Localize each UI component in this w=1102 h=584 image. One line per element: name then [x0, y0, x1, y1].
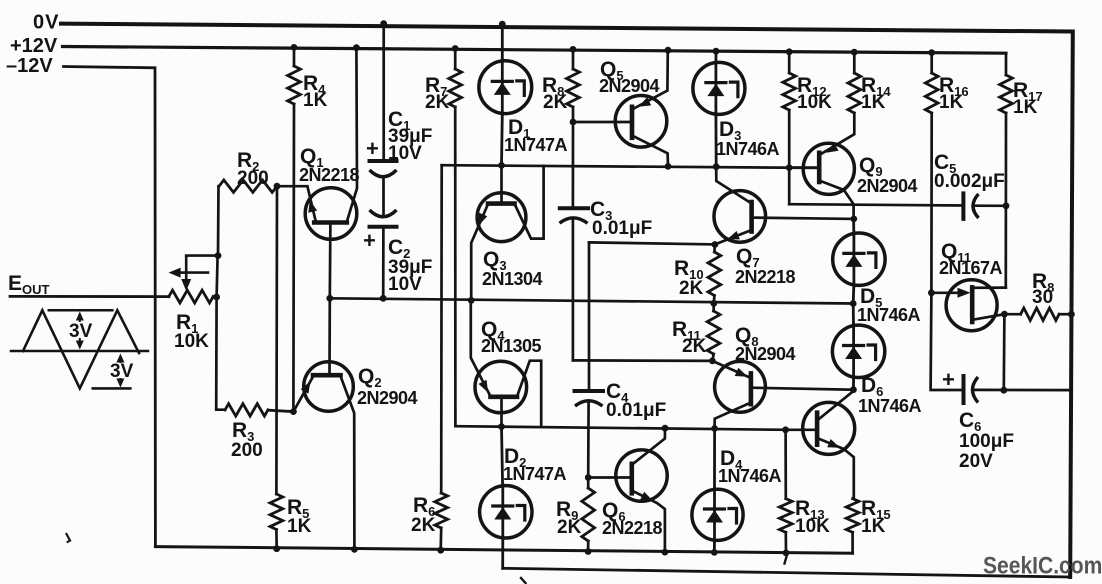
label Q2 [358, 365, 382, 390]
svg-text:1K: 1K [861, 92, 886, 113]
junction R7 top on +12V [452, 45, 459, 52]
svg-text:1N746A: 1N746A [858, 396, 922, 416]
label R3 [232, 419, 254, 444]
junction R12 on upper bus [786, 164, 793, 171]
junction R16 line / Q11 base [928, 289, 935, 296]
label R12 [797, 74, 827, 99]
label Q9 [859, 154, 883, 179]
label Q11 type [939, 258, 1003, 278]
junction R11 bottom / Q8 emitter [709, 358, 716, 365]
svg-text:2N2904: 2N2904 [599, 76, 660, 96]
label R7 value [425, 92, 450, 113]
junction C6 wire / Q11 emitter line [1000, 387, 1007, 394]
wire R2 node down to R5 [275, 186, 278, 494]
svg-text:1N747A: 1N747A [503, 464, 567, 484]
resistor R10 [708, 245, 721, 304]
label C4 value [606, 400, 666, 421]
wire D1 bottom lead [500, 114, 504, 166]
speck mark bottom center [521, 578, 526, 583]
svg-text:0.01μF: 0.01μF [606, 400, 666, 421]
transistor Q10 [786, 391, 855, 499]
label Q8 [735, 324, 759, 349]
label R14 value [861, 92, 886, 113]
junction R8/Q5 base node [570, 119, 577, 126]
label C4 [606, 380, 629, 405]
waveform peak reference line [49, 309, 113, 312]
label C5 [934, 151, 956, 176]
wire D1 top lead [501, 24, 504, 61]
svg-text:30: 30 [1032, 287, 1053, 308]
label R16 [939, 74, 969, 99]
speck tick below R13 [785, 557, 787, 564]
label Q4 type [481, 336, 542, 356]
junction R4 top on +12V [291, 44, 298, 51]
wire C4 top corner to Q7 emitter node [588, 242, 591, 391]
label C1 [388, 108, 410, 133]
label C2 plus [363, 228, 376, 253]
junction R13 bottom [783, 550, 790, 557]
junction R12 top on +12V [786, 48, 793, 55]
svg-text:2N1305: 2N1305 [481, 336, 542, 356]
svg-text:2N2218: 2N2218 [602, 518, 663, 538]
wire D4 top lead [713, 429, 716, 490]
svg-text:200: 200 [231, 440, 263, 461]
label R5 value [287, 516, 312, 537]
junction D3/Q7 collector node on bus [713, 163, 720, 170]
label C1 value [388, 126, 432, 147]
transistor Q6 [588, 428, 667, 552]
label R11 value [682, 336, 707, 357]
zener diode D6 [832, 324, 884, 378]
junction R2-Q1 node [274, 183, 281, 190]
label R16 value [939, 92, 964, 113]
label Q4 [481, 318, 505, 343]
label R17 value [1013, 97, 1038, 118]
svg-text:1N746A: 1N746A [718, 466, 782, 486]
label +12V [10, 35, 58, 57]
label Q8 type [735, 344, 796, 364]
junction D6 bottom / Q10 collector node [850, 386, 857, 393]
wire lower bus (Q4 base / D2 node rail) [455, 426, 785, 430]
label Q11 [941, 240, 971, 265]
label Q9 type [857, 176, 918, 196]
junction R3-Q2 emitter node [290, 408, 297, 415]
wire bottom -12V rail [155, 547, 852, 554]
svg-text:+12V: +12V [10, 35, 58, 57]
svg-text:10V: 10V [388, 143, 422, 164]
speck mark lower left [67, 534, 71, 542]
resistor R8 (30) [1004, 308, 1071, 320]
R1 wiper arm [181, 256, 218, 291]
label R3 value [231, 440, 263, 461]
label R8 (2K) [542, 74, 564, 99]
junction R9 top / Q6 base node [585, 474, 592, 481]
label R15 [861, 497, 891, 522]
resistor R4 [288, 47, 301, 411]
label R2 [237, 149, 259, 174]
label D2 [504, 445, 526, 470]
label 3V upper [69, 321, 93, 342]
resistor R6 [435, 165, 448, 550]
svg-text:1K: 1K [939, 92, 964, 113]
svg-text:2K: 2K [557, 517, 582, 538]
label C6 [959, 409, 981, 434]
transistor Q2 [293, 298, 354, 549]
capacitor C3 [560, 208, 589, 360]
wire D3 bottom lead [715, 114, 718, 166]
wire C3 to R11 bottom [573, 359, 713, 362]
label R7 [425, 74, 447, 99]
svg-text:1N746A: 1N746A [716, 139, 780, 159]
label D6 type [858, 396, 922, 416]
junction R16 top on +12V [928, 49, 935, 56]
svg-text:2N2904: 2N2904 [735, 344, 796, 364]
junction D5-D6 mid node [850, 300, 857, 307]
label R4 value [303, 90, 328, 111]
junction R9 bottom [585, 548, 592, 555]
label R4 [303, 72, 326, 97]
svg-text:+: + [366, 136, 379, 161]
label C6 value [959, 431, 1014, 452]
junction C2 bottom node [380, 295, 387, 302]
label R2 value [237, 168, 269, 189]
svg-text:2K: 2K [679, 278, 704, 299]
label Q6 type [602, 518, 663, 538]
svg-text:10V: 10V [388, 274, 422, 295]
label Q3 type [482, 269, 543, 289]
zener diode D1 [479, 60, 532, 115]
label Q7 type [735, 267, 796, 287]
label R15 value [861, 516, 886, 537]
dimension arrow 3V upper [76, 312, 84, 350]
wire D6 top lead [852, 304, 855, 326]
label C2 value [388, 257, 432, 278]
transistor Q1 [277, 48, 357, 299]
label R13 value [795, 516, 830, 537]
wire D2 top lead [502, 427, 503, 486]
junction C5 right on R17 line [1003, 202, 1010, 209]
junction Q2 collector bottom [351, 546, 358, 553]
label Q3 [483, 248, 507, 273]
svg-text:+: + [363, 228, 376, 253]
capacitor C2 [370, 210, 397, 298]
junction Q11 emitter / R8 left [1001, 311, 1008, 318]
label R6 [413, 494, 435, 519]
transistor Q7 [714, 167, 854, 245]
svg-text:2N2218: 2N2218 [735, 267, 796, 287]
label R9 [556, 498, 578, 523]
svg-text:2K: 2K [411, 515, 436, 536]
junction R1 right terminal [213, 294, 220, 301]
label R1 [176, 311, 198, 336]
wire -12V feed (turns down at left) [64, 67, 156, 547]
dimension arrow 3V lower [116, 354, 124, 388]
R1 adjust arrow [169, 268, 208, 278]
junction Q6 collector on lower bus [662, 425, 669, 432]
wire upper bus (D1/Q3 node rail) [442, 165, 820, 168]
label C6 voltage [959, 451, 993, 472]
label Q2 type [357, 388, 418, 408]
waveform valley reference line [93, 387, 131, 390]
potentiometer R1 [169, 290, 217, 303]
junction Q3/Q4 emitter node [468, 297, 475, 304]
label C1 plus [366, 136, 379, 161]
junction C1 top on 0V [380, 20, 387, 27]
resistor R12 [783, 52, 796, 168]
resistor R3 [225, 404, 293, 416]
svg-text:1K: 1K [287, 516, 312, 537]
wire R8 node down to C3 [572, 122, 575, 208]
label Q5 [600, 58, 624, 83]
junction Q7 base right node [850, 216, 857, 223]
zener diode D2 [480, 485, 532, 539]
transistor Q4 [471, 300, 541, 427]
svg-text:100μF: 100μF [959, 431, 1014, 452]
capacitor C1 [370, 24, 397, 217]
label R1 value [174, 331, 209, 352]
svg-text:1K: 1K [861, 516, 886, 537]
svg-text:1N747A: 1N747A [504, 135, 568, 155]
label R8 (2K) value [543, 92, 568, 113]
wire R16 line down to C6 [931, 293, 962, 390]
svg-text:2N1304: 2N1304 [482, 269, 543, 289]
waveform baseline [11, 350, 148, 353]
junction Q1-Q2 base node [326, 295, 333, 302]
junction Q8 collector / D4 node [711, 425, 718, 432]
label D2 type [503, 464, 567, 484]
label R9 value [557, 517, 582, 538]
label Q1 [300, 145, 324, 170]
svg-text:10K: 10K [795, 516, 830, 537]
wire D3 top lead [715, 51, 718, 62]
transistor Q9 [789, 113, 854, 219]
svg-text:3V: 3V [110, 361, 134, 382]
svg-text:–12V: –12V [6, 55, 53, 77]
wire D4 bottom lead [713, 540, 716, 552]
capacitor C4 [575, 391, 604, 478]
junction D1/Q3 base node [498, 162, 505, 169]
junction R5 bottom [273, 545, 280, 552]
svg-text:2N2904: 2N2904 [357, 388, 418, 408]
label R10 value [679, 278, 704, 299]
zener diode D4 [692, 488, 743, 541]
zener diode D5 [833, 232, 885, 286]
label 0V [33, 12, 59, 34]
resistor R15 [846, 499, 859, 554]
resistor R13 [779, 430, 792, 553]
label C6 plus [942, 367, 955, 392]
junction D1 top on 0V [499, 21, 506, 28]
label Q6 [602, 499, 626, 524]
wire D5 bottom lead [852, 286, 855, 304]
label Q1 type [299, 165, 360, 185]
junction R10/R11 on mid bus [710, 300, 717, 307]
junction R14 top on +12V [851, 49, 858, 56]
label C5 value [934, 171, 1005, 192]
wire y242 (to R10 top) [589, 242, 715, 244]
wire R1 to R3 (vertical) [216, 297, 225, 410]
resistor R8 (2K) [567, 49, 580, 122]
label R12 value [797, 92, 832, 113]
svg-text:SeekIC.com: SeekIC.com [983, 551, 1102, 579]
label C1 voltage [388, 143, 422, 164]
transistor Q3 [471, 165, 543, 300]
svg-text:0.01μF: 0.01μF [592, 218, 652, 239]
label R8 (30) [1032, 270, 1054, 295]
label C2 [388, 236, 410, 261]
resistor R7 [449, 49, 462, 427]
capacitor C6 [964, 376, 1071, 403]
svg-text:20V: 20V [959, 451, 993, 472]
svg-text:2N2218: 2N2218 [299, 165, 360, 185]
label R11 [672, 318, 701, 343]
wire mid bus (Q1 base to D5-D6 node) [330, 298, 853, 303]
junction Q1 collector on +12V [353, 44, 360, 51]
svg-text:1K: 1K [303, 90, 328, 111]
wire R1 to R2 (vertical) [217, 186, 219, 297]
label R5 [287, 496, 309, 521]
svg-text:10K: 10K [174, 331, 209, 352]
junction Q10 base / R13 top [782, 426, 789, 433]
label D1 type [504, 135, 568, 155]
wire lower 0V return rail [503, 568, 1070, 577]
junction Q6 emitter bottom [662, 549, 669, 556]
wire R12 node down to C5 wire [788, 168, 791, 205]
transistor Q5 [573, 50, 668, 166]
triangle waveform [23, 310, 139, 388]
label 3V lower [110, 361, 134, 382]
resistor R2 [219, 180, 277, 192]
wire EOUT input [10, 295, 169, 298]
svg-text:2K: 2K [543, 92, 568, 113]
label -12V [6, 55, 53, 77]
junction R8 top on +12V [570, 46, 577, 53]
label R8 (30) value [1032, 287, 1053, 308]
svg-text:1N746A: 1N746A [857, 305, 921, 325]
label R13 [795, 497, 825, 522]
resistor R14 [848, 52, 861, 113]
label D4 type [718, 466, 782, 486]
label Q7 [736, 245, 760, 270]
label D3 [719, 118, 741, 143]
wire D6 bottom lead [852, 378, 855, 390]
label C2 voltage [388, 274, 422, 295]
junction R8 right on 0V edge [1068, 311, 1075, 318]
svg-text:10K: 10K [797, 92, 832, 113]
svg-text:0.002μF: 0.002μF [934, 171, 1005, 192]
wire D2 bottom lead to lower rail [501, 538, 504, 568]
wire C5 node wire [789, 204, 963, 205]
wire Q11 emitter down to C6 wire [1002, 314, 1005, 390]
label D4 [720, 447, 743, 472]
label R17 [1013, 79, 1043, 104]
junction Q5 emitter on +12V [665, 47, 672, 54]
junction Q4 base / D2 node [498, 423, 505, 430]
resistor R11 [707, 303, 720, 361]
watermark SeekIC.com [983, 551, 1102, 579]
capacitor C5 [963, 193, 1006, 219]
label R6 value [411, 515, 436, 536]
label D3 type [716, 139, 780, 159]
resistor R9 [582, 478, 595, 552]
junction Q7 emitter / R10 top [712, 241, 719, 248]
transistor Q11 [931, 280, 1005, 331]
svg-text:3V: 3V [69, 321, 93, 342]
label C3 [590, 198, 612, 223]
label EOUT [8, 272, 50, 297]
svg-text:2K: 2K [425, 92, 450, 113]
transistor Q8 [712, 361, 853, 429]
label C3 value [592, 218, 652, 239]
resistor R5 [270, 494, 283, 549]
label D6 [861, 374, 883, 399]
label Q5 type [599, 76, 660, 96]
junction D3 top on +12V [713, 48, 720, 55]
label D1 [508, 116, 530, 141]
label D5 [860, 285, 882, 310]
svg-text:1K: 1K [1013, 97, 1038, 118]
junction D4 bottom [711, 549, 718, 556]
junction R1 wiper tap [215, 252, 222, 259]
svg-text:200: 200 [237, 168, 269, 189]
zener diode D3 [693, 61, 745, 115]
svg-text:2K: 2K [682, 336, 707, 357]
label R14 [861, 74, 891, 99]
wire +12V rail [63, 47, 1007, 54]
svg-text:2N2904: 2N2904 [857, 176, 918, 196]
svg-text:+: + [942, 367, 955, 392]
resistor R16 [925, 53, 938, 293]
svg-text:0V: 0V [33, 12, 59, 34]
junction R6 bottom [437, 547, 444, 554]
wire D5 top lead [852, 219, 855, 233]
label R10 [674, 257, 704, 282]
resistor R17 [1000, 53, 1013, 287]
svg-text:2N167A: 2N167A [939, 258, 1003, 278]
label D5 type [857, 305, 921, 325]
junction Q5 collector on bus [665, 163, 672, 170]
